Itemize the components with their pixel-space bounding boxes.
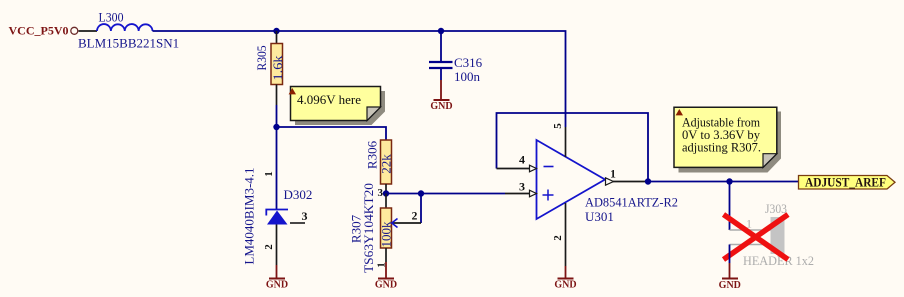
capacitor C316 — [429, 31, 483, 84]
junction node AREF divider — [383, 190, 389, 196]
U301 plus symbol — [543, 194, 554, 196]
svg-text:4.096V here: 4.096V here — [297, 93, 361, 107]
ground below J303 — [719, 263, 741, 291]
D302 pin 3 stub — [290, 222, 305, 224]
U301 triangle body — [537, 140, 606, 219]
svg-text:2: 2 — [263, 244, 275, 250]
R306 body — [381, 140, 392, 184]
svg-text:ADJUST_AREF: ADJUST_AREF — [805, 175, 886, 190]
C316 bottom plate — [429, 67, 453, 69]
wire R305 to node below — [276, 105, 278, 127]
svg-text:TS63Y104KT20: TS63Y104KT20 — [361, 183, 376, 273]
C316 pin 2 — [440, 68, 442, 80]
J303 pin 2 — [730, 244, 771, 246]
junction below R305 — [273, 124, 279, 130]
svg-text:R305: R305 — [254, 46, 269, 71]
junction wiper tap — [418, 190, 424, 196]
svg-text:LM4040BIM3-4.1: LM4040BIM3-4.1 — [242, 167, 257, 264]
C316 pin 1 — [440, 31, 442, 62]
R305 pin 1 — [276, 31, 278, 44]
svg-text:3: 3 — [302, 209, 308, 223]
zener diode D302 — [242, 167, 313, 265]
port ADJUST_AREF — [799, 175, 896, 190]
resistor R306 — [365, 140, 394, 194]
svg-text:2: 2 — [552, 235, 564, 241]
R307 pin 1 — [385, 248, 387, 262]
svg-text:U301: U301 — [585, 209, 614, 224]
wire AREF net down to J303 pin 1 — [729, 182, 731, 231]
wire node to R306 top — [277, 127, 387, 140]
svg-text:2: 2 — [412, 210, 418, 222]
wire node to D302 cathode — [276, 127, 278, 209]
junction at R305 top — [273, 28, 279, 34]
svg-text:4: 4 — [519, 153, 525, 167]
svg-text:GND: GND — [430, 101, 452, 112]
U301 pin 5 — [565, 127, 567, 157]
svg-text:GND: GND — [266, 280, 288, 291]
R305 body — [271, 44, 283, 85]
junction at U301 output — [645, 178, 651, 184]
D302 anode pin — [276, 225, 278, 266]
svg-text:22k: 22k — [379, 154, 394, 174]
svg-text:adjusting R307.: adjusting R307. — [682, 140, 761, 154]
ground below D302 — [266, 265, 288, 291]
junction at J303 tap — [726, 178, 732, 184]
svg-text:VCC_P5V0: VCC_P5V0 — [9, 24, 69, 38]
note "Adjustable from 0V to 3.36V by adjusting R307." — [674, 107, 781, 172]
no-fit red cross over J303 — [724, 215, 789, 260]
U301 pin 3 — [505, 193, 530, 195]
R307 wiper pin 2 lead — [393, 222, 422, 224]
R307 body — [381, 208, 392, 248]
svg-text:GND: GND — [719, 280, 741, 291]
svg-text:AD8541ARTZ-R2: AD8541ARTZ-R2 — [585, 195, 678, 210]
ground below C316 — [430, 80, 452, 112]
D302 triangle — [267, 211, 288, 225]
ground below R307 — [375, 262, 397, 291]
note folded corner — [763, 154, 777, 168]
wire VCC rail from L300 to op-amp pin 5 — [153, 31, 566, 127]
U301 pin 4 — [497, 168, 530, 170]
svg-text:3: 3 — [519, 180, 525, 194]
note body — [674, 107, 777, 167]
svg-text:BLM15BB221SN1: BLM15BB221SN1 — [78, 36, 179, 51]
svg-text:L300: L300 — [99, 10, 124, 25]
svg-text:3: 3 — [378, 187, 384, 199]
U301 pin 2 — [565, 203, 567, 266]
svg-text:R306: R306 — [365, 140, 380, 169]
junction at C316 top — [438, 28, 444, 34]
J303 body — [771, 217, 785, 254]
wire output net to port — [645, 181, 799, 183]
note marker triangle — [676, 109, 683, 115]
J303 pin 1 — [730, 229, 771, 231]
svg-text:100k: 100k — [379, 221, 394, 248]
wire feedback loop pin 1 to pin 4 — [497, 113, 649, 182]
svg-text:100n: 100n — [454, 69, 481, 84]
svg-text:GND: GND — [375, 280, 397, 291]
note marker triangle — [289, 88, 296, 94]
svg-text:GND: GND — [554, 280, 576, 291]
R307 wiper arrowhead — [392, 219, 398, 228]
note "4.096V here" — [289, 87, 385, 126]
R307 pin 3 — [385, 194, 387, 209]
resistor R305 — [254, 31, 285, 105]
svg-text:1: 1 — [610, 169, 616, 181]
R306 bottom pin — [385, 184, 387, 194]
note folded corner — [367, 107, 381, 121]
header J303 (disabled) — [730, 201, 815, 268]
svg-text:5: 5 — [552, 123, 564, 129]
svg-text:1: 1 — [263, 171, 275, 177]
potentiometer R307 — [349, 183, 422, 273]
U301 output marker — [606, 178, 614, 185]
U301 pin 3 arrowhead — [530, 190, 537, 197]
wire node to op-amp pin 3 — [386, 193, 505, 195]
U301 pin 4 arrowhead — [530, 165, 537, 172]
svg-text:J303: J303 — [765, 201, 787, 216]
C316 top plate — [429, 61, 453, 63]
note body — [291, 87, 381, 121]
svg-text:D302: D302 — [284, 187, 313, 202]
ground below U301 — [554, 266, 576, 291]
op-amp U301 — [497, 113, 679, 266]
U301 pin 1 — [613, 181, 645, 183]
power port VCC_P5V0 circle — [71, 27, 78, 34]
svg-text:C316: C316 — [454, 55, 483, 70]
svg-text:1.6k: 1.6k — [270, 55, 285, 81]
wire wiper tap vertical — [420, 194, 422, 224]
port shape — [799, 176, 896, 190]
inductor L300 body — [97, 24, 153, 31]
wire VCC port to L300 pin 1 — [79, 30, 98, 32]
D302 cathode bar — [266, 210, 288, 216]
U301 minus symbol — [544, 166, 554, 168]
note shadow — [295, 91, 385, 125]
wire J303 pin 2 to ground — [729, 245, 731, 264]
note shadow — [679, 112, 782, 173]
R305 pin 2 — [276, 85, 278, 106]
